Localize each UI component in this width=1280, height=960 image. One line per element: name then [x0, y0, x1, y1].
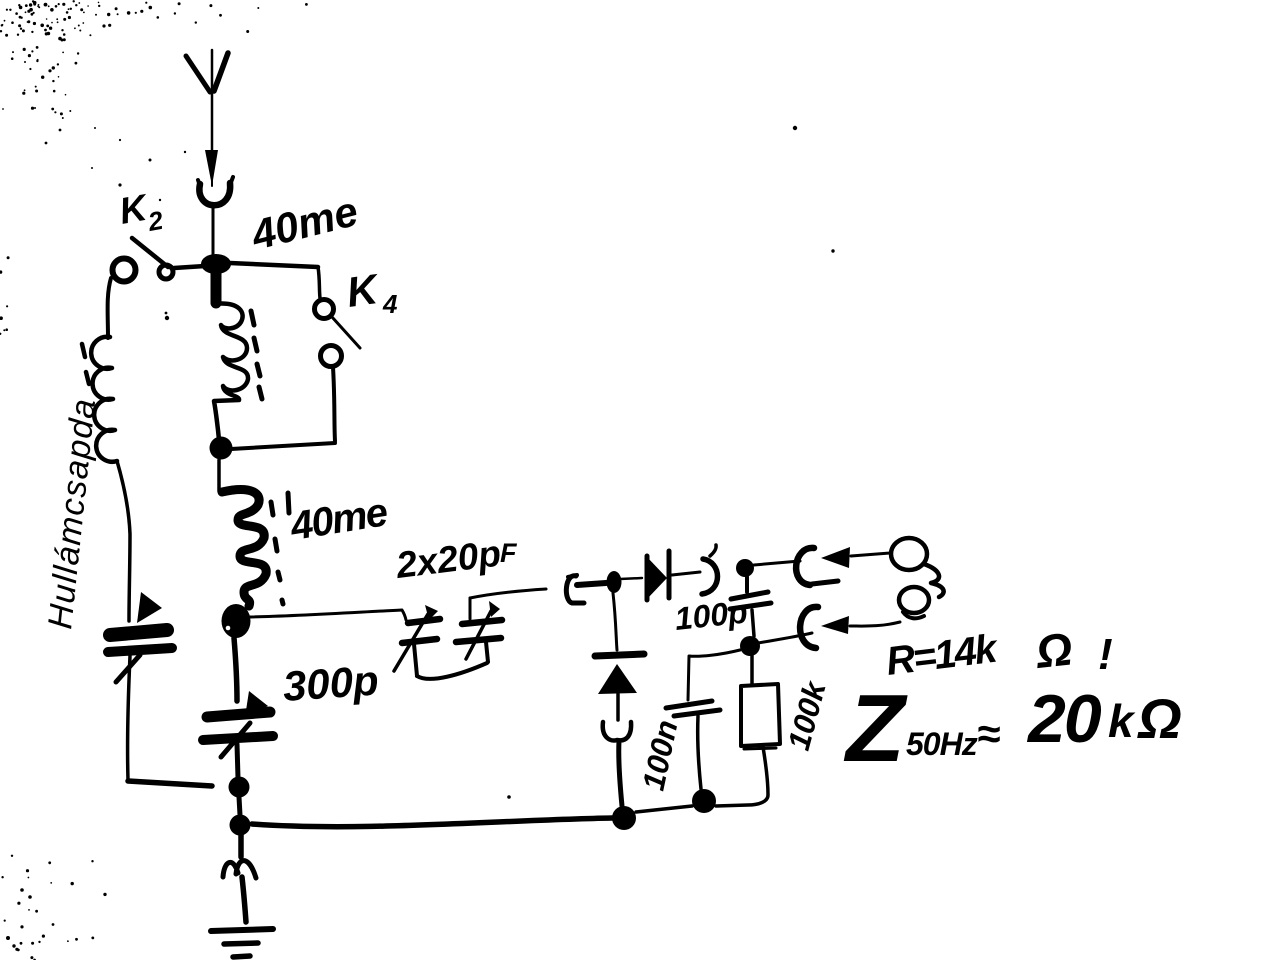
svg-text:≈: ≈ [977, 710, 1000, 757]
svg-text:50Hz: 50Hz [906, 726, 978, 762]
svg-text:Ω: Ω [1033, 622, 1075, 678]
svg-text:Ω: Ω [1137, 687, 1182, 750]
svg-text:F: F [500, 538, 518, 568]
svg-text:4: 4 [382, 289, 398, 319]
svg-text:k: k [1108, 695, 1136, 747]
svg-text:!: ! [1098, 630, 1113, 679]
svg-text:Z: Z [843, 675, 908, 782]
svg-text:300p: 300p [281, 656, 380, 710]
svg-text:20: 20 [1026, 681, 1102, 757]
svg-text:100p: 100p [673, 594, 749, 637]
